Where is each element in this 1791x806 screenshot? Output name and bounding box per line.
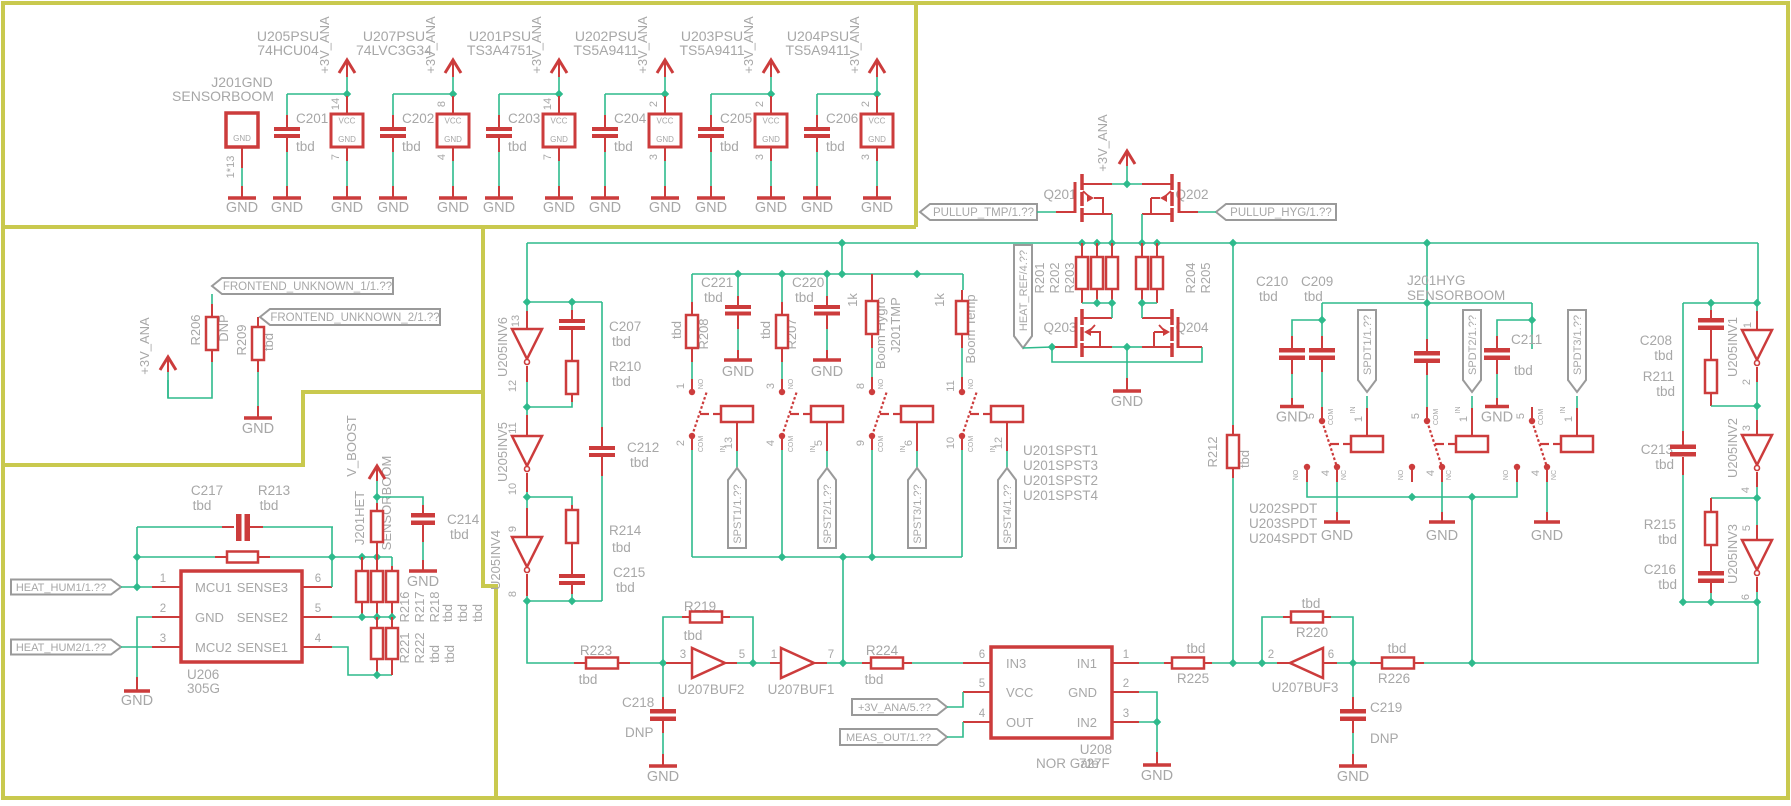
junction rail R203: [1108, 239, 1116, 247]
junction Q201 Q202 sources: [1123, 180, 1131, 188]
wire R201-R203 drain rail: [1082, 302, 1112, 304]
svg-text:1: 1: [771, 649, 777, 661]
svg-text:GND: GND: [377, 200, 409, 216]
ground for C219: [1339, 764, 1367, 768]
wire Q203 source to center: [1112, 346, 1127, 348]
svg-text:C203: C203: [508, 111, 540, 126]
junction above U204PSU: [873, 90, 881, 98]
junction BUF2 input: [659, 659, 667, 667]
wire HEAT_HUM1 to MCU1: [121, 586, 152, 588]
ground for C211: [1485, 405, 1509, 409]
svg-text:2: 2: [648, 101, 660, 107]
svg-text:PULLUP_HYG/1.??: PULLUP_HYG/1.??: [1230, 207, 1332, 219]
svg-text:5: 5: [739, 649, 745, 661]
svg-text:HEAT_REF/4.??: HEAT_REF/4.??: [1018, 250, 1030, 331]
svg-text:NC: NC: [1341, 470, 1348, 480]
switch SPST1 IN pin: [736, 422, 738, 451]
svg-text:GND: GND: [1111, 394, 1143, 410]
svg-text:U201SPST3: U201SPST3: [1023, 458, 1098, 473]
svg-text:NO: NO: [1503, 469, 1510, 480]
svg-text:5: 5: [1741, 525, 1753, 531]
switch SPST4 actuator: [970, 413, 979, 415]
switch SPST1 NO pin: [689, 389, 695, 395]
svg-text:tbd: tbd: [402, 139, 421, 154]
svg-text:3: 3: [160, 633, 166, 645]
switch SPDT3 COM pin: [1531, 407, 1533, 418]
svg-text:U205INV1: U205INV1: [1725, 317, 1740, 377]
wire FRONTEND_UNKNOWN_1 to R206: [211, 294, 213, 304]
pin 4 of U207PSU: [452, 147, 454, 161]
net label SPST2: [818, 468, 836, 548]
junction MOSFET sources: [1123, 343, 1131, 351]
svg-text:4: 4: [315, 633, 322, 645]
pin 4 of U208: [963, 721, 991, 723]
svg-text:R214: R214: [609, 523, 642, 538]
wire SPDT3 NC to ground: [1546, 482, 1548, 512]
svg-text:R215: R215: [1644, 517, 1676, 532]
net label SPDT1: [1358, 310, 1376, 392]
pin 2 of U204PSU: [876, 96, 878, 114]
switch SPST4 blade: [962, 391, 977, 436]
wire R209 to ground: [257, 372, 259, 406]
junction right bus C208: [1707, 299, 1715, 307]
svg-text:tbd: tbd: [1658, 577, 1677, 592]
svg-text:GND: GND: [695, 200, 727, 216]
svg-text:2: 2: [160, 603, 166, 615]
wire SPST4 COM down: [961, 436, 963, 450]
svg-text:J201HYG: J201HYG: [1407, 273, 1466, 288]
wire Q203 drain up: [1111, 303, 1113, 318]
wire INV6 input to C207 C212: [527, 301, 602, 303]
wire HYG right down: [1531, 303, 1533, 320]
wire V_BOOST to C214: [376, 497, 378, 503]
svg-text:GND: GND: [811, 364, 843, 380]
junction COM bus down-leg: [839, 553, 847, 561]
svg-text:tbd: tbd: [826, 139, 845, 154]
svg-text:tbd: tbd: [427, 645, 442, 663]
svg-text:C214: C214: [447, 512, 480, 527]
svg-text:tbd: tbd: [1655, 457, 1674, 472]
ground for J201GND: [228, 196, 256, 200]
ground for U206: [124, 689, 150, 693]
svg-text:OUT: OUT: [1006, 715, 1034, 730]
switch SPDT2 NC pin: [1439, 464, 1445, 470]
svg-text:1: 1: [1123, 649, 1129, 661]
pin 14 of U201PSU: [558, 96, 560, 114]
svg-text:+3V_ANA: +3V_ANA: [1095, 114, 1110, 172]
wire HEAT_HUM2 to MCU2: [121, 646, 152, 648]
svg-text:tbd: tbd: [612, 540, 631, 555]
svg-text:C206: C206: [826, 111, 858, 126]
wire pullup sub-bus: [692, 273, 963, 275]
svg-text:tbd: tbd: [508, 139, 527, 154]
connector J201GND: [226, 113, 258, 147]
svg-text:SPDT3/1.??: SPDT3/1.??: [1572, 315, 1584, 375]
svg-text:tbd: tbd: [470, 604, 485, 622]
svg-text:tbd: tbd: [193, 498, 212, 513]
IC U205PSU: [331, 114, 363, 147]
svg-text:2: 2: [1123, 678, 1129, 690]
junction C211 node: [1528, 316, 1536, 324]
junction INV2 output: [1753, 494, 1761, 502]
svg-text:GND: GND: [1321, 528, 1353, 544]
svg-text:727F: 727F: [1079, 756, 1110, 771]
svg-text:NC: NC: [1446, 470, 1453, 480]
ground for Q203 Q204: [1113, 389, 1141, 393]
svg-text:GND: GND: [722, 364, 754, 380]
svg-text:5: 5: [315, 603, 321, 615]
svg-text:12: 12: [507, 380, 519, 392]
wire C211 stub: [1531, 320, 1533, 349]
wire +3V rail bus: [527, 242, 1758, 244]
svg-text:C201: C201: [296, 111, 328, 126]
svg-text:+3V_ANA: +3V_ANA: [529, 16, 544, 74]
wire HEAT_REF to gates: [1023, 347, 1052, 348]
wire bottom bus corner down: [1472, 602, 1758, 663]
svg-text:GND: GND: [1426, 528, 1458, 544]
svg-text:R224: R224: [866, 643, 899, 658]
svg-text:MCU2: MCU2: [195, 640, 232, 655]
svg-text:14: 14: [542, 98, 554, 110]
junction INV6 input: [523, 298, 531, 306]
wire cap to U204PSU: [817, 93, 877, 95]
IC U204PSU: [861, 114, 893, 147]
svg-text:GND: GND: [242, 421, 274, 437]
svg-text:R212: R212: [1205, 436, 1220, 467]
junction right bus INV1: [1753, 299, 1761, 307]
switch SPDT1 IN pin: [1366, 408, 1368, 436]
svg-text:tbd: tbd: [704, 290, 723, 305]
junction C209 C210 node: [1318, 316, 1326, 324]
svg-text:U206: U206: [187, 667, 219, 682]
svg-text:DNP: DNP: [625, 725, 654, 740]
svg-text:2: 2: [1268, 649, 1274, 661]
svg-text:6: 6: [1328, 649, 1334, 661]
switch SPST1 blade: [692, 391, 707, 436]
ground for SPDT1: [1324, 520, 1350, 524]
svg-text:GND: GND: [656, 135, 674, 144]
svg-text:C215: C215: [613, 565, 645, 580]
ground for C220: [813, 358, 841, 362]
svg-text:tbd: tbd: [614, 139, 633, 154]
svg-text:GND: GND: [233, 134, 251, 143]
svg-text:SENSORBOOM: SENSORBOOM: [172, 88, 274, 104]
junction NO bus SPDT2: [1408, 493, 1416, 501]
junction sub-bus R207: [778, 270, 786, 278]
ground for C205: [697, 196, 725, 200]
junction INV3 output: [1753, 598, 1761, 606]
svg-text:tbd: tbd: [579, 672, 598, 687]
svg-text:GND: GND: [550, 135, 568, 144]
svg-text:IN1: IN1: [1077, 656, 1097, 671]
switch SPDT2 NO pin: [1409, 464, 1415, 470]
svg-text:GND: GND: [331, 200, 363, 216]
resistor R217: [376, 557, 378, 571]
wire right top bus: [1683, 302, 1757, 304]
ground for C221: [724, 358, 752, 362]
net label SPDT2: [1463, 310, 1481, 392]
svg-text:SPST2/1.??: SPST2/1.??: [822, 484, 834, 543]
junction gate node: [1048, 343, 1056, 351]
wire Q201 Q202 source link: [1112, 183, 1142, 185]
svg-text:SENSORBOOM: SENSORBOOM: [1407, 288, 1505, 303]
pin 2 of U202PSU: [664, 96, 666, 114]
switch SPDT2 IN pin: [1471, 408, 1473, 436]
junction drain rail R204: [1138, 299, 1146, 307]
svg-text:tbd: tbd: [1656, 384, 1675, 399]
svg-text:TS3A4751: TS3A4751: [467, 42, 533, 58]
pin 2 of U203PSU: [770, 96, 772, 114]
wire Q202 drain to rail: [1141, 214, 1143, 243]
svg-text:C204: C204: [614, 111, 647, 126]
pin 5 SENSE2 of U206: [302, 616, 332, 618]
svg-text:SPST3/1.??: SPST3/1.??: [912, 484, 924, 543]
svg-text:+3V_ANA: +3V_ANA: [423, 16, 438, 74]
svg-text:R201: R201: [1032, 262, 1047, 293]
wire INV5 output to R214: [527, 497, 572, 505]
svg-text:tbd: tbd: [1658, 532, 1677, 547]
wire COM bus to buffer output node: [842, 557, 844, 663]
ground for C206: [803, 196, 831, 200]
wire cap to U203PSU: [711, 93, 771, 95]
svg-text:6: 6: [903, 440, 915, 446]
svg-text:C207: C207: [609, 319, 641, 334]
svg-text:VCC: VCC: [869, 117, 886, 126]
svg-text:2: 2: [675, 440, 687, 446]
svg-text:7: 7: [542, 154, 554, 160]
net label +3V_ANA/5: [852, 699, 947, 715]
svg-text:R217: R217: [412, 591, 427, 622]
svg-text:GND: GND: [647, 769, 679, 785]
svg-text:COM: COM: [968, 436, 975, 453]
svg-text:1k: 1k: [845, 293, 860, 307]
svg-text:10: 10: [945, 437, 957, 449]
svg-text:U207BUF3: U207BUF3: [1272, 680, 1339, 695]
junction bottom bus left: [1679, 598, 1687, 606]
svg-text:5: 5: [813, 440, 825, 446]
svg-text:R204: R204: [1183, 262, 1198, 293]
junction rail R204: [1138, 239, 1146, 247]
svg-text:14: 14: [330, 98, 342, 110]
junction rail R201: [1078, 239, 1086, 247]
wire IN2 pin join: [1139, 721, 1157, 723]
junction rail HYG: [1423, 239, 1431, 247]
svg-text:tbd: tbd: [612, 334, 631, 349]
svg-text:Q201: Q201: [1043, 187, 1076, 202]
svg-text:R209: R209: [234, 324, 249, 355]
ground for U208: [1143, 763, 1171, 767]
svg-text:IN: IN: [1560, 407, 1567, 414]
svg-text:7: 7: [330, 154, 342, 160]
wire SENSE2 to resistor bank: [332, 616, 392, 618]
svg-text:U204SPDT: U204SPDT: [1249, 531, 1317, 546]
svg-text:tbd: tbd: [1304, 289, 1323, 304]
svg-text:C205: C205: [720, 111, 752, 126]
svg-text:R225: R225: [1177, 671, 1209, 686]
junction BUF2 output: [749, 659, 757, 667]
ground for C204: [591, 196, 619, 200]
svg-text:TS5A9411: TS5A9411: [785, 42, 850, 58]
svg-text:GND: GND: [801, 200, 833, 216]
pin 3 of U208: [1112, 721, 1139, 723]
svg-text:4: 4: [1530, 470, 1542, 476]
svg-text:tbd: tbd: [684, 628, 703, 643]
svg-text:SPDT1/1.??: SPDT1/1.??: [1362, 315, 1374, 375]
pin 3 of U204PSU: [876, 147, 878, 161]
svg-text:TS5A9411: TS5A9411: [573, 42, 638, 58]
svg-text:R206: R206: [188, 314, 203, 345]
switch SPST3 blade: [872, 391, 887, 436]
wire rail to U205INV6: [526, 243, 528, 303]
svg-text:tbd: tbd: [1259, 289, 1278, 304]
svg-text:SENSE1: SENSE1: [237, 640, 288, 655]
svg-text:tbd: tbd: [440, 604, 455, 622]
junction INV4 output: [523, 597, 531, 605]
svg-text:tbd: tbd: [795, 290, 814, 305]
svg-text:R211: R211: [1643, 369, 1674, 384]
svg-text:U207BUF1: U207BUF1: [768, 682, 835, 697]
svg-text:3: 3: [860, 154, 872, 160]
svg-text:tbd: tbd: [1302, 596, 1321, 611]
pin 8 of U207PSU: [452, 96, 454, 114]
svg-text:11: 11: [507, 422, 519, 433]
ground for C201: [273, 196, 301, 200]
net label SPDT3: [1568, 310, 1586, 392]
net label HEAT_HUM1: [11, 580, 121, 595]
junction INV1 output: [1753, 402, 1761, 410]
wire sources to ground: [1126, 347, 1128, 378]
junction V_BOOST: [373, 493, 381, 501]
switch SPDT1 blade: [1322, 421, 1337, 467]
svg-text:J201HET: J201HET: [352, 491, 367, 545]
wire GND pin to ground: [1139, 692, 1157, 722]
svg-text:U202SPDT: U202SPDT: [1249, 501, 1317, 516]
svg-text:5: 5: [1515, 413, 1527, 419]
wire SPST3 COM down: [871, 436, 873, 450]
switch SPDT3 blade: [1532, 421, 1547, 467]
svg-text:4: 4: [979, 708, 986, 720]
svg-text:C216: C216: [1644, 562, 1676, 577]
svg-text:74LVC3G34: 74LVC3G34: [356, 42, 432, 58]
svg-text:GND: GND: [755, 200, 787, 216]
net label FRONTEND_UNKNOWN_1: [212, 278, 393, 294]
wire R206 to +3V_ANA: [168, 362, 212, 398]
wire SPST COM bus: [692, 556, 962, 558]
svg-text:IN: IN: [1350, 407, 1357, 414]
svg-text:tbd: tbd: [630, 455, 649, 470]
wire C217 left leg: [136, 527, 138, 587]
svg-text:1: 1: [1353, 416, 1365, 422]
switch SPDT1 NC pin: [1334, 464, 1340, 470]
svg-text:12: 12: [993, 437, 1005, 449]
pin 7 of U205PSU: [346, 147, 348, 161]
svg-text:NO: NO: [1293, 469, 1300, 480]
svg-text:tbd: tbd: [1654, 348, 1673, 363]
junction above U201PSU: [555, 90, 563, 98]
svg-text:SPST4/1.??: SPST4/1.??: [1002, 484, 1014, 543]
junction rail link top: [838, 239, 846, 247]
pin 14 of U205PSU: [346, 96, 348, 114]
wire SPST1 COM down: [691, 436, 693, 450]
svg-text:COM: COM: [1538, 409, 1545, 426]
svg-text:Q203: Q203: [1043, 320, 1076, 335]
switch SPST2 COM pin: [779, 433, 785, 439]
pin 3 of U203PSU: [770, 147, 772, 161]
ground for U202PSU: [651, 196, 679, 200]
svg-text:R203: R203: [1062, 262, 1077, 293]
svg-text:R220: R220: [1296, 625, 1328, 640]
svg-text:1: 1: [1458, 416, 1470, 422]
ground for C203: [485, 196, 513, 200]
svg-text:GND: GND: [121, 693, 153, 709]
wire SPDT2 NC to ground: [1441, 482, 1443, 512]
pin 1*13 of J201GND: [241, 147, 243, 168]
svg-text:8: 8: [507, 591, 519, 597]
junction J201HET bus: [358, 553, 366, 561]
frame divider middle-left bottom step: [3, 392, 483, 465]
switch SPST2 IN pin: [826, 422, 828, 451]
pin 6 of U208: [963, 662, 991, 664]
svg-text:VCC: VCC: [445, 117, 462, 126]
net label SPST3: [908, 468, 926, 548]
wire R225 node to BUF3: [1233, 662, 1262, 664]
svg-text:3: 3: [754, 154, 766, 160]
wire C209 to SPDT1 COM: [1321, 372, 1323, 407]
pin 4 SENSE1 of U206: [302, 646, 332, 648]
junction INV5 output: [523, 493, 531, 501]
wire right bottom bus: [1683, 601, 1758, 603]
svg-text:tbd: tbd: [260, 498, 279, 513]
junction U208 ground node: [1153, 718, 1161, 726]
junction drain rail R202: [1093, 299, 1101, 307]
pin 5 of U208: [963, 691, 991, 693]
svg-text:4: 4: [1425, 470, 1437, 476]
switch SPDT3 NO pin: [1514, 464, 1520, 470]
switch SPST4 NO pin: [959, 389, 965, 395]
svg-text:R202: R202: [1047, 262, 1062, 293]
svg-text:C212: C212: [627, 440, 659, 455]
wire rail right corner down: [1757, 243, 1759, 303]
ground for C210: [1280, 405, 1304, 409]
wire Q204 source to center: [1127, 346, 1142, 348]
net label SPST4: [998, 468, 1016, 548]
svg-text:GND: GND: [1276, 410, 1308, 426]
junction SENSE1 bus: [373, 671, 381, 679]
svg-text:GND: GND: [1531, 528, 1563, 544]
switch SPDT3 actuator: [1540, 443, 1549, 445]
svg-text:VCC: VCC: [551, 117, 568, 126]
junction pin1 node: [133, 583, 141, 591]
svg-text:VCC: VCC: [1006, 685, 1033, 700]
svg-text:NO: NO: [968, 378, 975, 389]
svg-text:+3V_ANA/5.??: +3V_ANA/5.??: [858, 702, 931, 714]
svg-text:C220: C220: [792, 275, 824, 290]
pin 3 of U202PSU: [664, 147, 666, 161]
wire cap to U202PSU: [605, 93, 665, 95]
pin 2 of U208: [1112, 691, 1139, 693]
wire HYG left down: [1321, 303, 1323, 320]
svg-text:MCU1: MCU1: [195, 580, 232, 595]
svg-text:tbd: tbd: [865, 672, 884, 687]
resistor R222: [391, 617, 393, 628]
svg-text:C213: C213: [1641, 442, 1673, 457]
junction rail link bottom: [838, 270, 846, 278]
IC U208: [991, 647, 1112, 738]
svg-text:COM: COM: [1433, 409, 1440, 426]
resistor R216: [361, 557, 363, 571]
svg-text:2: 2: [1741, 379, 1753, 385]
svg-text:U201SPST1: U201SPST1: [1023, 443, 1098, 458]
